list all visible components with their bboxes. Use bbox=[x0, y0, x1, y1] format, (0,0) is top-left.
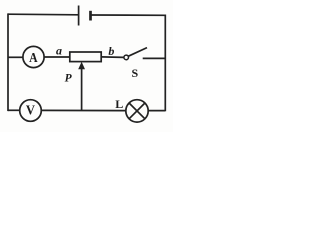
wire: rheostat b to switch pivot bbox=[101, 56, 124, 59]
svg-text:S: S bbox=[132, 66, 139, 80]
svg-text:a: a bbox=[56, 43, 62, 57]
wire: bottom wire left rail to voltmeter bbox=[8, 109, 20, 111]
wire: left vertical wire bbox=[7, 13, 9, 111]
voltmeter V circle bbox=[20, 100, 42, 122]
wire: top wire left segment bbox=[8, 13, 78, 16]
lamp L circle bbox=[126, 100, 148, 122]
svg-text:b: b bbox=[108, 44, 114, 58]
svg-text:V: V bbox=[26, 102, 35, 118]
rheostat slider arrowhead P bbox=[78, 62, 85, 69]
wire: middle wire from left rail to ammeter bbox=[8, 56, 23, 58]
battery cell: long plate (positive) bbox=[78, 6, 80, 26]
wire: switch right contact to right rail bbox=[143, 57, 166, 59]
svg-text:L: L bbox=[115, 97, 123, 111]
wire: bottom wire voltmeter to lamp bbox=[41, 109, 126, 111]
wire: top wire right segment bbox=[91, 14, 166, 16]
svg-text:P: P bbox=[65, 73, 73, 85]
battery cell: short thick plate (negative) bbox=[89, 11, 92, 21]
rheostat R body bbox=[70, 52, 101, 62]
svg-text:A: A bbox=[29, 49, 38, 65]
wire: slider vertical wire down to bottom wire bbox=[81, 66, 83, 110]
wire: right vertical wire bbox=[164, 15, 166, 112]
switch S pivot circle bbox=[124, 55, 129, 60]
wire: ammeter to rheostat terminal a bbox=[44, 56, 70, 58]
ammeter A circle bbox=[23, 46, 44, 67]
lamp L cross stroke 1 bbox=[129, 103, 145, 119]
switch S blade (open) bbox=[128, 48, 147, 57]
wire: lamp to right rail bbox=[148, 110, 165, 112]
lamp L cross stroke 2 bbox=[129, 103, 145, 119]
